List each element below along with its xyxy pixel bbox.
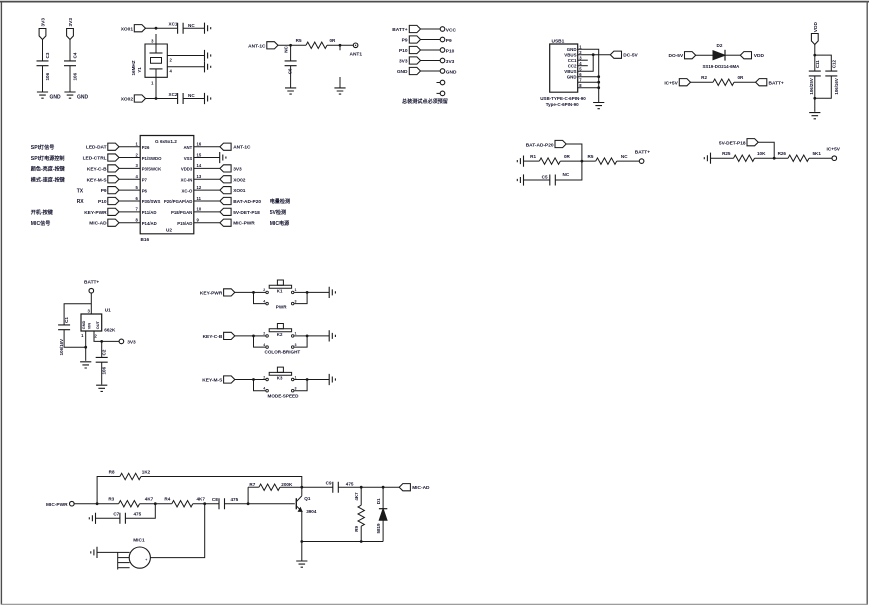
svg-text:10K: 10K	[757, 151, 766, 156]
svg-text:电量检测: 电量检测	[270, 198, 290, 205]
node junction	[96, 502, 99, 505]
svg-text:XO02: XO02	[233, 177, 246, 183]
wire	[64, 330, 86, 348]
svg-text:IC+5V: IC+5V	[827, 147, 841, 153]
svg-text:NC: NC	[284, 45, 289, 52]
svg-text:开机-按键: 开机-按键	[31, 209, 54, 216]
wire	[74, 503, 119, 505]
svg-text:14: 14	[197, 163, 202, 168]
svg-text:12: 12	[197, 185, 202, 190]
svg-text:C7: C7	[113, 511, 119, 516]
svg-text:475: 475	[346, 482, 354, 487]
svg-text:MIC信号: MIC信号	[31, 220, 51, 227]
wire	[193, 503, 219, 505]
svg-text:ANT-1C: ANT-1C	[248, 43, 266, 49]
svg-text:R1: R1	[530, 154, 536, 159]
svg-text:R4: R4	[164, 497, 170, 502]
wire	[524, 160, 540, 162]
svg-text:16MHZ: 16MHZ	[131, 60, 136, 75]
wire	[814, 45, 816, 72]
svg-text:MIC1: MIC1	[133, 537, 145, 543]
U2 right pin 16 ANT	[183, 142, 251, 151]
svg-text:3V3: 3V3	[68, 18, 74, 27]
wire	[42, 40, 44, 61]
svg-text:LED-CTRL: LED-CTRL	[83, 156, 107, 162]
wire	[225, 503, 295, 505]
svg-text:GND: GND	[446, 69, 457, 75]
wire	[235, 379, 254, 381]
svg-text:P9: P9	[402, 38, 408, 44]
test point 3V3	[399, 57, 455, 65]
svg-text:DC-5V: DC-5V	[623, 53, 638, 59]
svg-text:GND: GND	[397, 69, 408, 75]
svg-text:R8: R8	[109, 470, 115, 475]
svg-text:USB-TYPE-C-6PIN-90: USB-TYPE-C-6PIN-90	[540, 96, 586, 101]
node junction	[247, 502, 250, 505]
wire	[183, 27, 204, 29]
pin 2 wire	[94, 331, 119, 341]
ground	[64, 92, 75, 98]
svg-text:3: 3	[295, 387, 297, 391]
svg-text:475: 475	[134, 511, 142, 516]
node junction	[360, 486, 363, 489]
svg-text:C4: C4	[73, 52, 78, 58]
wire	[145, 98, 177, 100]
svg-text:C6: C6	[288, 68, 293, 74]
wire	[555, 161, 582, 180]
wire pin7	[578, 81, 599, 83]
ground	[96, 385, 107, 391]
svg-text:VCC: VCC	[446, 27, 457, 33]
U2 left pin 5 P9	[77, 185, 148, 194]
svg-text:3V3: 3V3	[446, 59, 455, 65]
svg-text:1: 1	[295, 332, 297, 336]
antenna pad ANT1	[353, 43, 358, 48]
svg-text:R25: R25	[722, 151, 731, 156]
wire	[734, 81, 756, 83]
svg-text:Q1: Q1	[304, 496, 311, 501]
svg-text:K3: K3	[277, 376, 283, 381]
wire	[307, 291, 329, 293]
pad BATT+	[639, 159, 644, 164]
svg-text:R9: R9	[354, 525, 359, 531]
test point P10	[399, 46, 455, 54]
svg-text:11: 11	[197, 196, 202, 201]
svg-text:P20/PGAP/AD: P20/PGAP/AD	[164, 199, 192, 204]
svg-text:U1: U1	[105, 308, 111, 313]
crystal Y1 16MHZ	[131, 44, 167, 77]
wire	[560, 160, 595, 162]
svg-text:SPI灯信号: SPI灯信号	[31, 144, 55, 151]
svg-text:G 6x5x1.2: G 6x5x1.2	[155, 139, 177, 144]
svg-text:P15/AD: P15/AD	[177, 221, 192, 226]
svg-text:C2: C2	[101, 349, 106, 355]
U2 right pin 11 P20/PGAP/AD	[164, 196, 290, 205]
svg-text:OUT: OUT	[95, 320, 100, 329]
pin3 CC1 stub	[578, 59, 588, 61]
svg-text:R7: R7	[249, 482, 255, 487]
svg-text:4K7: 4K7	[354, 492, 359, 501]
ground	[704, 153, 710, 164]
svg-text:R2: R2	[701, 75, 707, 80]
svg-text:Type-C-6PIN-90: Type-C-6PIN-90	[546, 102, 579, 107]
svg-text:VDD: VDD	[754, 53, 765, 59]
svg-text:NC: NC	[188, 23, 195, 28]
node junction	[592, 53, 595, 56]
transistor Q1 3904	[296, 487, 317, 541]
svg-text:10: 10	[197, 207, 202, 212]
svg-text:C11: C11	[815, 60, 820, 69]
svg-text:3: 3	[295, 299, 297, 303]
pin 4 wire	[167, 66, 204, 68]
ground C7	[89, 513, 95, 524]
IC U2 body	[140, 136, 194, 234]
ground	[296, 561, 307, 567]
node junction	[100, 340, 103, 343]
svg-text:BATT+: BATT+	[635, 150, 650, 156]
wire R8 to collector	[141, 477, 302, 488]
node junction	[289, 44, 292, 47]
ground	[593, 103, 604, 109]
svg-text:R3: R3	[108, 497, 114, 502]
svg-text:MODE-SPEED: MODE-SPEED	[268, 393, 300, 398]
svg-text:C8: C8	[212, 497, 218, 502]
svg-text:BATT+: BATT+	[769, 80, 784, 86]
node junction	[203, 502, 206, 505]
U2 left pin 7 KEY-PWR	[31, 207, 157, 216]
svg-text:C9: C9	[326, 480, 332, 485]
svg-text:C12: C12	[831, 60, 836, 69]
U2 right pin 15 VSS	[184, 152, 220, 160]
wire	[327, 44, 353, 46]
svg-text:5V检测: 5V检测	[270, 209, 286, 216]
svg-text:P3/SWCK: P3/SWCK	[142, 167, 162, 172]
svg-text:2: 2	[263, 375, 265, 379]
svg-text:3V3: 3V3	[399, 59, 408, 65]
svg-text:C3: C3	[45, 52, 50, 58]
wire	[307, 379, 329, 381]
svg-text:MIC-PWR: MIC-PWR	[46, 502, 68, 508]
test point GND	[397, 67, 457, 75]
svg-text:颜色-亮度-按键: 颜色-亮度-按键	[31, 166, 66, 173]
svg-text:P18/PGAN: P18/PGAN	[171, 210, 192, 215]
svg-text:KEY-M-S: KEY-M-S	[87, 177, 108, 183]
svg-text:KEY-M-S: KEY-M-S	[202, 378, 223, 384]
wire	[690, 81, 713, 83]
svg-text:4: 4	[263, 387, 265, 391]
node junction	[155, 97, 158, 100]
ground	[809, 113, 820, 119]
wire	[617, 160, 640, 162]
wire	[96, 517, 120, 519]
svg-text:SS19-DO214-6MA: SS19-DO214-6MA	[703, 64, 741, 69]
sheet border frame	[0, 1, 869, 3]
ground	[80, 362, 91, 368]
svg-text:3904: 3904	[306, 509, 317, 514]
node junction	[382, 486, 385, 489]
svg-text:COLOR-BRIGHT: COLOR-BRIGHT	[265, 350, 301, 355]
svg-text:C1: C1	[64, 317, 69, 323]
node junction	[813, 97, 816, 100]
svg-text:3V3: 3V3	[127, 340, 136, 346]
svg-text:1K2: 1K2	[142, 470, 151, 475]
ground	[205, 93, 211, 104]
node junction	[84, 346, 87, 349]
svg-text:LED-DAT: LED-DAT	[86, 145, 107, 151]
wire pin2 VBUS to DC-5V	[578, 54, 611, 56]
ground	[205, 23, 211, 34]
U2 right pin 14 VDD3	[181, 163, 242, 172]
wire riser to R8	[97, 477, 120, 504]
wire	[145, 27, 177, 29]
svg-text:MIC-AD: MIC-AD	[89, 221, 107, 227]
ground	[517, 156, 523, 167]
U2 right pin 10 P18/PGAN	[171, 207, 286, 216]
wire	[524, 179, 550, 181]
svg-text:B16: B16	[141, 237, 150, 242]
wire	[69, 66, 71, 92]
svg-text:1: 1	[295, 375, 297, 379]
wire	[814, 76, 816, 112]
pin 2 wire	[167, 55, 204, 57]
svg-text:CC1: CC1	[568, 58, 577, 63]
svg-text:16: 16	[197, 142, 202, 147]
svg-text:0R: 0R	[738, 75, 745, 80]
svg-text:P30/SWS: P30/SWS	[142, 199, 161, 204]
svg-text:200K: 200K	[281, 482, 293, 487]
ground floating	[339, 77, 341, 88]
stub node	[339, 44, 342, 47]
wire	[809, 157, 832, 159]
svg-text:ANT: ANT	[183, 145, 192, 150]
svg-text:NC: NC	[563, 172, 570, 177]
regulator U1 body	[81, 314, 102, 331]
svg-text:K1: K1	[277, 289, 283, 294]
svg-text:XC-IN: XC-IN	[181, 177, 193, 182]
ground	[37, 92, 48, 98]
svg-text:VSS: VSS	[184, 156, 193, 161]
node junction	[813, 54, 816, 57]
ground pin15	[220, 152, 226, 163]
pin 1 wire	[155, 77, 157, 98]
svg-text:XC1: XC1	[169, 22, 178, 27]
svg-text:GND: GND	[50, 94, 62, 100]
svg-text:106: 106	[73, 72, 78, 80]
diode D2	[703, 43, 741, 69]
resistor R9 4K7 vertical	[354, 487, 364, 541]
svg-text:BATT+: BATT+	[84, 280, 99, 286]
capacitor C3	[37, 61, 49, 66]
svg-text:RX: RX	[77, 199, 85, 205]
svg-text:106: 106	[45, 72, 50, 80]
wire	[566, 144, 582, 161]
svg-text:P1/SWDO: P1/SWDO	[142, 156, 162, 161]
wire	[307, 335, 329, 337]
port VDD	[740, 52, 751, 59]
wire	[235, 335, 254, 337]
wire branch right return	[815, 76, 832, 98]
U2 right pin 12 XC-O	[182, 185, 246, 194]
ground mic	[91, 547, 97, 558]
wire	[755, 157, 789, 159]
port BATT+	[756, 79, 767, 86]
switch K1 PWR	[252, 280, 308, 309]
U2 right pin 13 XC-IN	[181, 174, 246, 183]
wire	[140, 503, 172, 505]
svg-text:U2: U2	[166, 228, 172, 233]
svg-text:P9: P9	[101, 188, 107, 194]
microphone MIC1	[118, 537, 151, 569]
svg-text:MIC-AD: MIC-AD	[412, 485, 430, 491]
svg-text:PWR: PWR	[276, 304, 287, 309]
svg-text:P26: P26	[142, 145, 150, 150]
svg-text:R26: R26	[778, 151, 787, 156]
wire	[183, 98, 204, 100]
pin 3 wire	[155, 34, 157, 44]
wire branch right	[815, 55, 832, 71]
svg-text:0R: 0R	[564, 154, 571, 159]
wire pin6	[578, 76, 599, 78]
svg-text:P14/AD: P14/AD	[142, 221, 157, 226]
test point TP6	[437, 80, 445, 85]
svg-text:P10: P10	[399, 48, 408, 54]
svg-text:P9: P9	[446, 38, 452, 44]
wire	[301, 542, 303, 562]
svg-text:P6: P6	[142, 188, 148, 193]
svg-text:13: 13	[197, 174, 202, 179]
ground pin4	[205, 61, 211, 72]
ground	[329, 330, 335, 341]
pin4 CC2 stub	[578, 65, 588, 67]
wire	[97, 551, 118, 553]
svg-text:R5: R5	[588, 154, 594, 159]
U2 left pin 1 LED-DAT	[31, 142, 150, 151]
wire pin5 VBUS riser	[578, 55, 594, 71]
svg-text:XC-O: XC-O	[182, 188, 193, 193]
svg-text:P10: P10	[446, 48, 455, 54]
svg-text:BAT-AD-P20: BAT-AD-P20	[526, 142, 554, 148]
capacitor C9 475	[302, 486, 333, 488]
svg-text:+: +	[145, 558, 147, 562]
node junction	[300, 540, 303, 543]
node junction	[360, 540, 363, 543]
svg-text:2: 2	[263, 288, 265, 292]
switch K3 MODE-SPEED	[252, 367, 308, 392]
wire emitter rail	[302, 541, 383, 543]
port DC-5V	[610, 51, 621, 58]
svg-text:5K1: 5K1	[813, 151, 822, 156]
ground	[517, 174, 523, 185]
test point P9	[402, 36, 452, 44]
svg-text:SPI灯电源控制: SPI灯电源控制	[31, 155, 65, 162]
svg-text:XC2: XC2	[169, 92, 178, 97]
connector USB1	[540, 39, 586, 108]
wire	[725, 54, 740, 56]
svg-text:106/16V: 106/16V	[834, 78, 839, 94]
svg-text:VIN: VIN	[87, 323, 92, 330]
svg-text:总装测试点必须预留: 总装测试点必须预留	[402, 98, 448, 105]
svg-text:MIC电源: MIC电源	[270, 220, 290, 227]
svg-text:VDD3: VDD3	[181, 167, 193, 172]
switch K2 COLOR-BRIGHT	[252, 324, 308, 349]
svg-text:0R: 0R	[330, 38, 337, 43]
svg-text:GND: GND	[567, 74, 577, 79]
wire	[90, 293, 92, 314]
svg-text:K2: K2	[277, 332, 283, 337]
svg-text:1: 1	[295, 288, 297, 292]
wire mic out	[150, 504, 204, 558]
U2 right pin 9 P15/AD	[177, 218, 290, 227]
svg-text:106/25V: 106/25V	[809, 78, 814, 94]
test point TP7	[437, 91, 445, 96]
svg-text:IC+5V: IC+5V	[664, 80, 678, 86]
svg-text:15: 15	[197, 152, 202, 157]
ground	[329, 374, 335, 385]
wire	[125, 504, 155, 519]
svg-text:VDD: VDD	[813, 22, 819, 33]
svg-text:2: 2	[263, 332, 265, 336]
svg-text:D2: D2	[717, 43, 723, 48]
svg-text:4: 4	[263, 343, 265, 347]
svg-text:4: 4	[263, 299, 265, 303]
pad IC+5V	[832, 156, 837, 161]
svg-text:106/16V: 106/16V	[59, 339, 64, 355]
node junction	[154, 502, 157, 505]
wire	[290, 66, 292, 88]
pad 3V3 out	[119, 339, 124, 344]
wire pin8	[578, 87, 599, 89]
svg-text:XO02: XO02	[121, 97, 134, 103]
svg-text:GND: GND	[567, 47, 577, 52]
port MIC-AD	[399, 484, 410, 491]
node junction	[300, 486, 303, 489]
svg-text:5819: 5819	[376, 523, 381, 534]
capacitor C2	[101, 341, 103, 357]
svg-text:GND: GND	[81, 320, 86, 329]
svg-text:3: 3	[295, 343, 297, 347]
svg-text:P11/AD: P11/AD	[142, 210, 157, 215]
pin 1 wire	[85, 331, 87, 361]
svg-text:C5: C5	[542, 175, 548, 180]
svg-text:ANT1: ANT1	[350, 52, 363, 58]
svg-text:R5: R5	[296, 38, 302, 43]
U2 left pin 3 KEY-C-B	[31, 163, 162, 172]
svg-text:KEY-C-B: KEY-C-B	[203, 334, 223, 340]
svg-text:BATT+: BATT+	[392, 27, 407, 33]
U2 left pin 8 MIC-AD	[31, 218, 157, 227]
svg-text:5V-DET-P18: 5V-DET-P18	[719, 141, 746, 147]
wire	[758, 142, 774, 158]
node junction	[773, 157, 776, 160]
svg-text:4K7: 4K7	[197, 497, 206, 502]
svg-text:NC: NC	[188, 93, 195, 98]
svg-text:4K7: 4K7	[145, 497, 154, 502]
svg-text:DO-5V: DO-5V	[669, 53, 684, 59]
U2 left pin 6 P10	[77, 196, 161, 205]
wire	[42, 66, 44, 92]
svg-text:TX: TX	[77, 188, 84, 194]
ground pin2	[205, 50, 211, 61]
svg-text:3V3: 3V3	[41, 18, 47, 27]
svg-text:D1: D1	[376, 498, 381, 504]
svg-text:VBUS: VBUS	[564, 52, 576, 57]
svg-text:MIC-PWR: MIC-PWR	[233, 221, 255, 227]
diode D1 5819 vertical	[376, 487, 388, 541]
svg-text:BAT-AD-P20: BAT-AD-P20	[233, 199, 261, 205]
svg-text:475: 475	[231, 497, 239, 502]
wire	[69, 40, 71, 61]
wire	[101, 362, 103, 384]
